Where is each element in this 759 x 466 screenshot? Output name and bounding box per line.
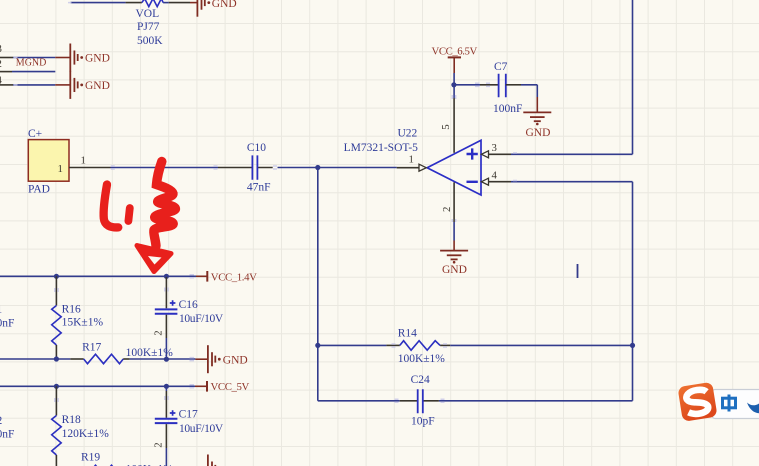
wire top net (71, 2, 191, 4)
power port VCC_6.5V (432, 46, 478, 85)
wire pin3 to top (511, 0, 633, 154)
svg-text:C10: C10 (247, 142, 266, 154)
wire R17 row (0, 358, 208, 360)
svg-text:VCC_5V: VCC_5V (211, 381, 250, 393)
svg-text:5: 5 (440, 124, 452, 129)
node C16 bottom (164, 357, 169, 362)
svg-text:10pF: 10pF (411, 416, 435, 428)
svg-text:R18: R18 (62, 414, 81, 426)
resistor R18 (52, 386, 110, 466)
ground GND (bottom partial) (208, 455, 215, 466)
resistor R14 (398, 328, 446, 365)
svg-text:10uF/10V: 10uF/10V (179, 313, 224, 325)
svg-text:10uF/10V: 10uF/10V (179, 423, 224, 435)
power port VCC_5V (207, 381, 249, 393)
capacitor C7 (493, 61, 522, 115)
svg-text:GND: GND (212, 0, 237, 10)
svg-text:120K±1%: 120K±1% (62, 428, 110, 440)
capacitor C17 (153, 386, 224, 466)
pin 3 (0, 43, 13, 57)
svg-text:4: 4 (492, 169, 498, 181)
svg-text:VOL: VOL (136, 8, 160, 20)
wire pin2 to gnd (453, 222, 455, 250)
svg-text:GND: GND (85, 53, 110, 65)
node R14 right (630, 343, 635, 348)
node C16 top (164, 274, 169, 279)
svg-text:R16: R16 (62, 304, 81, 316)
cursor tick (577, 264, 579, 278)
ground GND (left upper) (55, 44, 77, 72)
svg-text:2: 2 (0, 58, 2, 70)
svg-text:C16: C16 (179, 299, 198, 311)
svg-text:C+: C+ (28, 128, 42, 140)
svg-text:1: 1 (81, 155, 86, 167)
pin 2 (V-) (441, 182, 454, 222)
node junction (315, 165, 320, 170)
op-amp U22 LM7321-SOT-5 (344, 128, 481, 195)
svg-text:100nF: 100nF (493, 103, 522, 115)
potentiometer VOL PJ77 500K (142, 0, 163, 7)
svg-text:2: 2 (0, 415, 3, 427)
marker stroke L (104, 185, 119, 228)
pin hotspot marks (14, 3, 518, 403)
ground GND (C7) (523, 112, 551, 121)
wire C10 to opamp (278, 167, 397, 169)
capacitor C16 (153, 277, 224, 359)
node R14 left (315, 343, 320, 348)
svg-text:100nF: 100nF (0, 429, 14, 441)
wire vertical left loop (317, 168, 319, 401)
pin 1 of pad (69, 155, 111, 168)
left edge partial labels (0, 304, 14, 441)
svg-text:47nF: 47nF (247, 182, 271, 194)
marker arrowhead (137, 246, 171, 272)
marker dot (128, 208, 129, 221)
resistor R19 (partial at bottom) (81, 452, 173, 466)
wire MGND (12, 71, 55, 73)
pad C+ (28, 128, 69, 196)
svg-text:LM7321-SOT-5: LM7321-SOT-5 (344, 142, 419, 154)
ground GND (left lower) (55, 71, 77, 99)
ground GND (R17 row, rotated power port) (208, 345, 215, 373)
svg-text:C7: C7 (494, 61, 508, 73)
pin 3 (+) (481, 142, 511, 158)
svg-text:3: 3 (0, 43, 2, 55)
wire R14 row (318, 344, 633, 346)
svg-text:1: 1 (409, 154, 414, 166)
svg-text:R17: R17 (82, 342, 101, 354)
ground GND (top, rotated power port) (190, 0, 205, 17)
ground GND (op-amp pin2) (440, 251, 468, 260)
svg-text:2: 2 (441, 207, 453, 212)
svg-text:100nF: 100nF (0, 317, 14, 329)
wire pad to C10 (111, 167, 219, 169)
svg-text:PJ77: PJ77 (137, 21, 160, 33)
node VCC junction (451, 82, 456, 87)
marker squiggle arrow (154, 162, 176, 247)
capacitor C10 (218, 142, 273, 193)
pin 4 (-) (481, 169, 511, 185)
crescent icon (747, 403, 759, 414)
resistor R16 (52, 276, 104, 359)
wire node to C7 (454, 84, 499, 86)
svg-text:MGND: MGND (16, 57, 47, 68)
svg-text:U22: U22 (398, 128, 418, 140)
svg-text:VCC_6.5V: VCC_6.5V (432, 46, 478, 58)
svg-text:100K±1%: 100K±1% (398, 353, 446, 365)
sogou logo (677, 382, 717, 422)
wire C7 to gnd (506, 85, 538, 112)
svg-text:C24: C24 (411, 374, 430, 386)
svg-text:500K: 500K (137, 35, 163, 47)
svg-text:VCC_1.4V: VCC_1.4V (211, 271, 257, 283)
svg-text:R19: R19 (81, 452, 100, 464)
capacitor C24 (411, 374, 435, 428)
power port VCC_1.4V (207, 271, 257, 283)
wire net lower (13, 84, 55, 86)
svg-text:2: 2 (153, 330, 165, 335)
resistor R17 (82, 342, 173, 364)
wire VCC_1.4V row (0, 275, 207, 277)
pin 5 (V+) (440, 98, 454, 153)
pin 4 (0, 75, 13, 87)
node R18 top (54, 384, 59, 389)
pin 1 output (397, 154, 427, 172)
wire VCC_5V row (0, 385, 207, 387)
svg-text:2: 2 (153, 442, 165, 447)
svg-text:1: 1 (58, 163, 63, 175)
node R16 top (54, 274, 59, 279)
ime toolbar (712, 390, 759, 419)
wire pin4 to feedback (511, 182, 633, 401)
svg-text:GND: GND (442, 264, 467, 276)
zhong icon (723, 395, 736, 412)
wire net MGND upper (13, 57, 55, 59)
node C17 top (164, 384, 169, 389)
wire pin5 to node (453, 85, 455, 98)
wire C24 row (318, 400, 633, 402)
svg-text:3: 3 (492, 142, 497, 154)
svg-text:PAD: PAD (28, 183, 50, 195)
svg-text:15K±1%: 15K±1% (62, 317, 104, 329)
svg-text:GND: GND (223, 354, 248, 366)
svg-text:R14: R14 (398, 328, 417, 340)
pin 2 (0, 58, 12, 72)
svg-text:GND: GND (526, 127, 551, 139)
svg-text:1: 1 (0, 304, 3, 316)
svg-text:C17: C17 (179, 408, 198, 420)
svg-text:GND: GND (85, 80, 110, 92)
node R16 bottom (54, 356, 59, 361)
